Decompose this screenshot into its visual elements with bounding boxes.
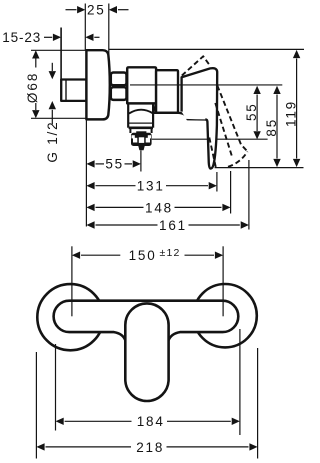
hose collar [131, 133, 152, 146]
dim 218 [36, 443, 257, 450]
svg-text:150: 150 [129, 248, 157, 263]
front view: right escutcheon circle [193, 284, 256, 347]
dim O68 ext bottom [31, 117, 86, 119]
dim O68 arrows [32, 50, 39, 118]
body lower right taper [154, 103, 156, 112]
handle lever [182, 68, 218, 168]
dim 55 vertical [253, 86, 260, 140]
svg-text:184: 184 [137, 414, 165, 429]
dim 15-23 arrows [44, 34, 100, 41]
dim 150+-12 [72, 252, 223, 259]
dashed open blade edge B [215, 103, 232, 158]
hex nut band 1 [111, 73, 127, 86]
svg-text:Ø68: Ø68 [25, 72, 40, 104]
dim 148 ext [230, 171, 232, 214]
svg-text:55: 55 [244, 102, 259, 121]
dim 119 vertical [293, 50, 300, 167]
front view: inlet center line left [71, 246, 73, 316]
dim O68 ext top [31, 49, 86, 51]
bottom reference line [215, 167, 304, 169]
valve body [127, 67, 156, 103]
cartridge cap [156, 70, 178, 113]
dim 25 ext left [84, 4, 86, 51]
front view: body bar fill [54, 301, 239, 332]
outlet bell sides [127, 103, 129, 127]
dim 85 vertical [273, 86, 280, 167]
dim 161 ext [248, 160, 250, 230]
hex nut band 2 [111, 87, 127, 100]
handle open position dashed wedge [182, 56, 211, 75]
dim 184 ext left [55, 344, 57, 431]
outlet neck [129, 128, 131, 133]
front view: left escutcheon circle [37, 284, 103, 350]
svg-text:218: 218 [136, 440, 164, 455]
outlet bold line [129, 127, 153, 130]
dashed open blade edge C [209, 138, 216, 169]
dashed open blade edge A [217, 86, 247, 152]
front view: handle [125, 303, 168, 401]
underside [153, 113, 205, 120]
dashed open blade tip [228, 152, 248, 167]
svg-text:25: 25 [87, 3, 106, 18]
G1/2 nipple [61, 80, 86, 101]
outlet axis extension [140, 150, 142, 171]
svg-text:55: 55 [105, 156, 124, 171]
dim 131 [86, 182, 217, 189]
svg-text:131: 131 [137, 179, 165, 194]
svg-text:G 1/2: G 1/2 [45, 121, 60, 163]
dim 55 bottom [86, 160, 140, 167]
svg-text:85: 85 [264, 118, 279, 137]
dim 131 ext [216, 172, 218, 192]
G 1/2 leader arrows [49, 63, 56, 125]
front view: inlet center line right [222, 246, 224, 316]
escutcheon (side) [86, 50, 109, 119]
dim 25 ext right [108, 4, 110, 64]
svg-text:161: 161 [159, 218, 187, 233]
level line 55 [152, 138, 268, 140]
dim 25 arrows [66, 6, 129, 13]
left extension line [85, 120, 87, 227]
dim 148 [86, 204, 230, 211]
svg-text:±12: ±12 [160, 247, 181, 259]
svg-text:15-23: 15-23 [2, 30, 41, 45]
outlet dome arc [129, 110, 153, 114]
hose tab [138, 146, 144, 150]
wall line [60, 28, 62, 80]
outlet thin line [129, 122, 153, 124]
dim 184 [56, 418, 240, 425]
svg-text:119: 119 [283, 100, 298, 127]
top reference line [109, 48, 304, 50]
svg-text:148: 148 [145, 200, 173, 215]
dim 218 ext right [257, 348, 259, 459]
front view: body bar outline [54, 301, 239, 341]
dim 161 [86, 221, 249, 228]
dim 218 ext left [35, 352, 37, 459]
axis line [130, 84, 282, 86]
dim 184 ext right [239, 329, 241, 435]
